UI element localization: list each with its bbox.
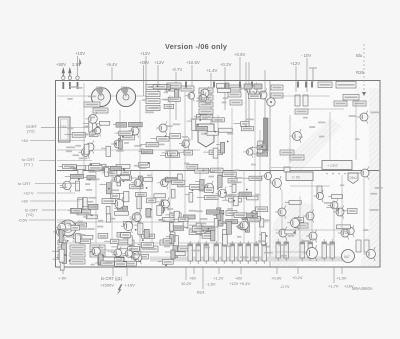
part value label — [263, 220, 270, 222]
part value label — [147, 175, 152, 177]
node junction — [115, 143, 117, 145]
part value label — [145, 112, 154, 114]
svg-text:to CRT: to CRT — [18, 181, 31, 186]
resistor R156 — [86, 215, 97, 219]
part value label — [89, 171, 97, 173]
wire — [252, 153, 257, 155]
part value label — [288, 235, 295, 237]
svg-text:R71: R71 — [96, 86, 103, 90]
transistor TS40 — [275, 206, 286, 219]
part value label — [86, 201, 93, 203]
part value label — [260, 144, 266, 146]
wire — [140, 143, 146, 145]
resistor R175 — [226, 211, 237, 216]
resistor R146 — [117, 206, 128, 210]
svg-text:+0.2V: +0.2V — [220, 62, 231, 67]
svg-text:C 59: C 59 — [292, 176, 300, 180]
wire — [134, 224, 138, 226]
transistor Q45 — [131, 252, 142, 265]
wire — [82, 205, 89, 207]
wire — [333, 267, 335, 283]
hatched copper strip right edge — [360, 88, 380, 266]
wire — [139, 151, 142, 153]
resistor R26 — [343, 95, 359, 101]
pin stub — [77, 82, 79, 89]
resistor R141 — [140, 246, 158, 252]
node junction — [252, 215, 254, 217]
dotted test row — [326, 173, 345, 174]
resistor R136 — [90, 245, 105, 250]
capacitor C154 — [322, 239, 327, 261]
wire — [130, 255, 135, 257]
wire — [112, 254, 118, 256]
wire — [72, 240, 79, 242]
part value label — [165, 150, 172, 152]
resistor R149 — [160, 204, 164, 213]
capacitor C134 — [222, 241, 227, 264]
node junction — [150, 209, 152, 211]
resistor R160 — [157, 206, 162, 216]
wire — [206, 119, 212, 121]
resistor R162 — [183, 218, 188, 228]
transistor Q26 — [78, 146, 89, 159]
wire — [199, 170, 201, 244]
node junction — [165, 135, 167, 137]
resistor R71 — [166, 153, 180, 157]
resistor R144 — [106, 214, 110, 222]
transistor TS26 — [357, 111, 368, 124]
resistor R80 — [119, 131, 133, 136]
resistor R163 — [242, 215, 252, 220]
part value label — [303, 117, 308, 119]
resistor R131 — [118, 176, 130, 180]
wire — [218, 267, 220, 274]
part value label — [370, 193, 377, 195]
part value label — [142, 99, 146, 101]
test point arrow — [79, 58, 82, 67]
resistor R66 — [116, 122, 127, 127]
node junction — [338, 208, 340, 210]
part value label — [83, 134, 88, 136]
node junction — [208, 228, 210, 230]
resistor R173 — [172, 226, 183, 230]
wire — [113, 123, 116, 125]
resistor R133 — [70, 245, 85, 250]
part value label — [239, 88, 245, 90]
part value label — [140, 167, 147, 169]
part value label — [223, 97, 228, 99]
resistor C25 — [353, 101, 366, 106]
transistor Q24 — [185, 90, 195, 102]
part value label — [182, 136, 188, 138]
capacitor C138 — [254, 241, 259, 264]
resistor R178 — [121, 233, 131, 238]
svg-text:(Y1 ): (Y1 ) — [24, 162, 33, 167]
wire — [242, 177, 249, 179]
wire — [57, 183, 80, 185]
wire — [145, 56, 147, 100]
capacitor C155 — [330, 239, 335, 261]
resistor R158 — [163, 217, 176, 221]
transistor Q28 — [86, 112, 98, 126]
resistor R62 — [157, 137, 169, 141]
resistor R133 — [222, 172, 236, 177]
part value label — [116, 150, 124, 152]
part value label — [237, 236, 241, 238]
wire — [113, 177, 118, 179]
resistor R140 — [118, 240, 134, 246]
part value label — [112, 189, 119, 191]
part value label — [62, 228, 71, 230]
wire — [194, 116, 196, 118]
resistor R1103 — [290, 155, 304, 160]
resistor R57 — [257, 152, 268, 156]
wire — [65, 134, 73, 136]
part value label — [205, 247, 210, 249]
part value label — [151, 107, 159, 109]
node junction — [142, 239, 144, 241]
resistor R125 — [178, 174, 183, 187]
resistor R131 — [58, 247, 66, 252]
wire — [245, 62, 247, 130]
resistor R185 — [202, 226, 215, 230]
wire — [137, 244, 141, 246]
resistor R134 — [70, 252, 85, 257]
part value label — [75, 145, 81, 147]
svg-text:(Y2): (Y2) — [26, 212, 34, 217]
resistor R127 — [124, 191, 129, 201]
resistor R52 — [175, 90, 179, 99]
transistor TS52 — [364, 247, 376, 261]
resistor R28 — [254, 84, 262, 89]
svg-text:+1,2V: +1,2V — [213, 276, 224, 281]
resistor R84 — [146, 142, 158, 146]
svg-text:+10V: +10V — [75, 51, 85, 56]
node junction — [293, 231, 295, 233]
transistor TS46 — [314, 190, 324, 202]
resistor R169 — [246, 223, 250, 232]
part value label — [222, 102, 227, 104]
svg-text:10,2V: 10,2V — [181, 281, 192, 286]
wire — [248, 215, 255, 217]
wire — [276, 251, 308, 253]
transistor Q47 — [129, 249, 140, 262]
wire — [200, 234, 203, 236]
transistor Q41 — [130, 210, 142, 224]
node junction — [90, 164, 92, 166]
resistor R216 — [59, 249, 64, 262]
part value label — [164, 92, 168, 94]
wire — [57, 140, 85, 142]
part value label — [355, 138, 359, 140]
part value label — [178, 186, 184, 188]
resistor R106 — [144, 178, 153, 182]
wire — [289, 115, 291, 163]
part value label — [88, 228, 95, 230]
resistor R112 — [166, 178, 179, 182]
resistor R58 — [141, 150, 152, 154]
svg-text:Version -/06 only: Version -/06 only — [165, 42, 228, 51]
resistor R179 — [192, 226, 203, 231]
part value label — [349, 115, 357, 117]
node junction — [246, 189, 248, 191]
svg-text:R81: R81 — [121, 86, 128, 90]
resistor R172 — [117, 232, 129, 237]
wire — [166, 236, 170, 238]
wire — [111, 67, 113, 81]
node junction — [67, 240, 69, 242]
resistor C22 — [199, 109, 213, 114]
resistor R51 — [153, 85, 167, 89]
svg-text:+10 V: +10 V — [23, 191, 34, 196]
transistor Q36 — [248, 208, 258, 220]
transistor TS44 — [306, 230, 317, 243]
horizontal wire mid — [57, 149, 200, 151]
svg-text:+26V: +26V — [139, 60, 149, 65]
resistor R221 — [105, 168, 109, 177]
capacitor C135 — [230, 241, 235, 264]
resistor R166 — [247, 216, 260, 221]
arrow into node R26 — [362, 92, 366, 96]
wire — [205, 189, 209, 191]
resistor R203 — [162, 260, 173, 265]
resistor R18 — [167, 83, 181, 88]
wire — [169, 95, 171, 243]
svg-text:+12V: +12V — [140, 51, 150, 56]
transistor Q48 — [122, 248, 132, 260]
node junction — [125, 177, 127, 179]
wire — [140, 230, 144, 232]
part value label — [84, 216, 88, 218]
wire — [143, 65, 145, 96]
wire — [101, 147, 106, 149]
part value label — [62, 243, 67, 245]
resistor R89 — [107, 183, 112, 194]
part value label — [225, 196, 232, 198]
wire — [290, 185, 330, 187]
resistor R87 — [184, 150, 193, 155]
transistor Q53 — [328, 199, 338, 212]
wire — [42, 209, 56, 211]
transistor Q46 — [89, 245, 100, 258]
resistor R208 — [123, 261, 136, 266]
tall dark resistor array — [264, 118, 269, 151]
resistor R184 — [174, 211, 179, 222]
resistor R190 — [226, 221, 231, 234]
svg-text:+12V +0,4V: +12V +0,4V — [229, 281, 250, 286]
resistor R219 — [102, 199, 115, 204]
wire — [234, 216, 242, 218]
wire — [92, 252, 96, 254]
resistor R152 — [189, 230, 201, 235]
resistor R88 — [106, 146, 111, 156]
resistor R139 — [76, 223, 87, 227]
part value label — [88, 96, 96, 98]
resistor R95 — [116, 164, 130, 168]
part value label — [175, 179, 181, 181]
part value label — [309, 126, 315, 128]
test pad circle — [76, 76, 79, 79]
resistor R60 — [219, 128, 233, 132]
resistor R135 — [70, 259, 85, 264]
part value label — [89, 117, 95, 119]
part value label — [324, 202, 332, 204]
resistor R187 — [206, 210, 219, 214]
capacitor C130 — [188, 241, 193, 264]
wire — [203, 231, 211, 233]
svg-text:F52B: F52B — [105, 249, 114, 253]
resistor R123 — [211, 168, 224, 173]
resistor R61 — [170, 134, 181, 139]
part value label — [278, 244, 286, 246]
wire — [311, 180, 313, 233]
resistor R105 — [189, 193, 193, 203]
hatched copper region bottom-mid — [272, 200, 314, 266]
test pad circle — [62, 76, 65, 79]
pin stub top — [297, 82, 299, 88]
resistor R227 — [337, 225, 351, 229]
resistor R201 — [79, 239, 90, 243]
resistor R64 — [129, 122, 143, 127]
board outline frame — [56, 81, 381, 268]
wire — [57, 219, 66, 221]
resistor R85 — [213, 148, 218, 158]
node junction — [106, 173, 108, 175]
part value label — [140, 148, 145, 150]
part value label — [183, 139, 190, 141]
capacitor C137 — [246, 241, 251, 264]
resistor R217 — [139, 163, 150, 168]
part value label — [302, 240, 310, 242]
part value label — [90, 135, 95, 137]
wire — [54, 256, 62, 258]
part value label — [200, 223, 206, 225]
part value label — [76, 87, 82, 89]
resistor R90 — [154, 194, 166, 198]
wire — [41, 127, 56, 129]
wire — [151, 138, 157, 140]
part value label — [97, 226, 103, 228]
resistor R117 — [249, 176, 262, 180]
resistor R70 — [119, 138, 123, 149]
svg-text:(Y2): (Y2) — [27, 129, 35, 134]
part value label — [100, 237, 106, 239]
wire — [68, 210, 70, 212]
resistor R147 — [89, 204, 99, 209]
transistor TS12 — [128, 125, 139, 138]
resistor R79 — [121, 135, 135, 140]
wire — [139, 100, 141, 243]
wire — [131, 177, 139, 179]
part value label — [91, 179, 99, 181]
resistor R86 — [72, 133, 85, 138]
resistor R143 — [123, 221, 132, 225]
resistor R111 — [218, 175, 223, 187]
resistor R72 — [220, 142, 224, 153]
wire — [254, 100, 256, 243]
resistor R207 — [115, 258, 124, 263]
node junction — [217, 188, 219, 190]
part value label — [203, 118, 208, 120]
resistor R189 — [226, 220, 238, 224]
connector C64 — [59, 117, 71, 142]
zener pentagon D51 — [348, 173, 358, 184]
part value label — [195, 210, 202, 212]
resistor R148 — [260, 219, 264, 227]
resistor C28b — [244, 84, 252, 89]
wire — [165, 214, 170, 216]
resistor C28 — [318, 82, 332, 88]
wire — [341, 267, 343, 274]
node junction — [139, 260, 141, 262]
node junction — [108, 188, 110, 190]
wire — [57, 127, 90, 129]
node junction — [123, 168, 125, 170]
resistor R52 — [295, 109, 308, 114]
svg-text:to CRT (g1): to CRT (g1) — [101, 276, 123, 281]
node junction — [157, 85, 159, 87]
wire — [204, 132, 207, 134]
resistor R76 — [93, 108, 108, 113]
wire — [111, 246, 118, 248]
wire — [222, 199, 228, 201]
node junction — [202, 170, 204, 172]
part value label — [252, 214, 258, 216]
svg-text:C64: C64 — [60, 125, 66, 129]
part value label — [208, 171, 215, 173]
wire — [281, 190, 283, 230]
transistor Q40 — [112, 197, 124, 211]
pin stub — [69, 82, 71, 89]
wire — [158, 205, 165, 207]
part value label — [146, 217, 153, 219]
resistor R110 — [165, 178, 177, 182]
resistor R49 — [164, 104, 174, 108]
wire — [250, 146, 257, 148]
transistor TS43 — [276, 227, 287, 240]
part value label — [184, 163, 189, 165]
part value label — [163, 99, 170, 101]
resistor R83 — [257, 145, 266, 149]
part value label — [198, 97, 206, 99]
pin stub top — [251, 82, 253, 88]
resistor R68 — [209, 150, 222, 155]
resistor R100 — [284, 167, 290, 172]
wire — [157, 65, 159, 96]
part value label — [80, 228, 87, 230]
transistor TS21 — [244, 83, 257, 98]
wire — [129, 256, 136, 258]
wire — [224, 67, 226, 110]
resistor R138 — [223, 229, 227, 240]
wire — [259, 130, 261, 243]
resistor R101 — [122, 176, 132, 180]
resistor R59 — [280, 150, 294, 155]
part value label — [123, 237, 130, 239]
wire — [185, 194, 189, 196]
wire — [224, 221, 226, 223]
wire — [181, 219, 184, 221]
wire — [158, 261, 163, 263]
wire — [213, 214, 219, 216]
resistor R77 — [84, 144, 89, 154]
wire — [243, 170, 245, 244]
svg-text:+10.5V: +10.5V — [186, 60, 200, 65]
wire — [237, 193, 239, 195]
part value label — [70, 86, 78, 88]
transistor Q38 — [158, 197, 169, 210]
node junction — [89, 179, 91, 181]
